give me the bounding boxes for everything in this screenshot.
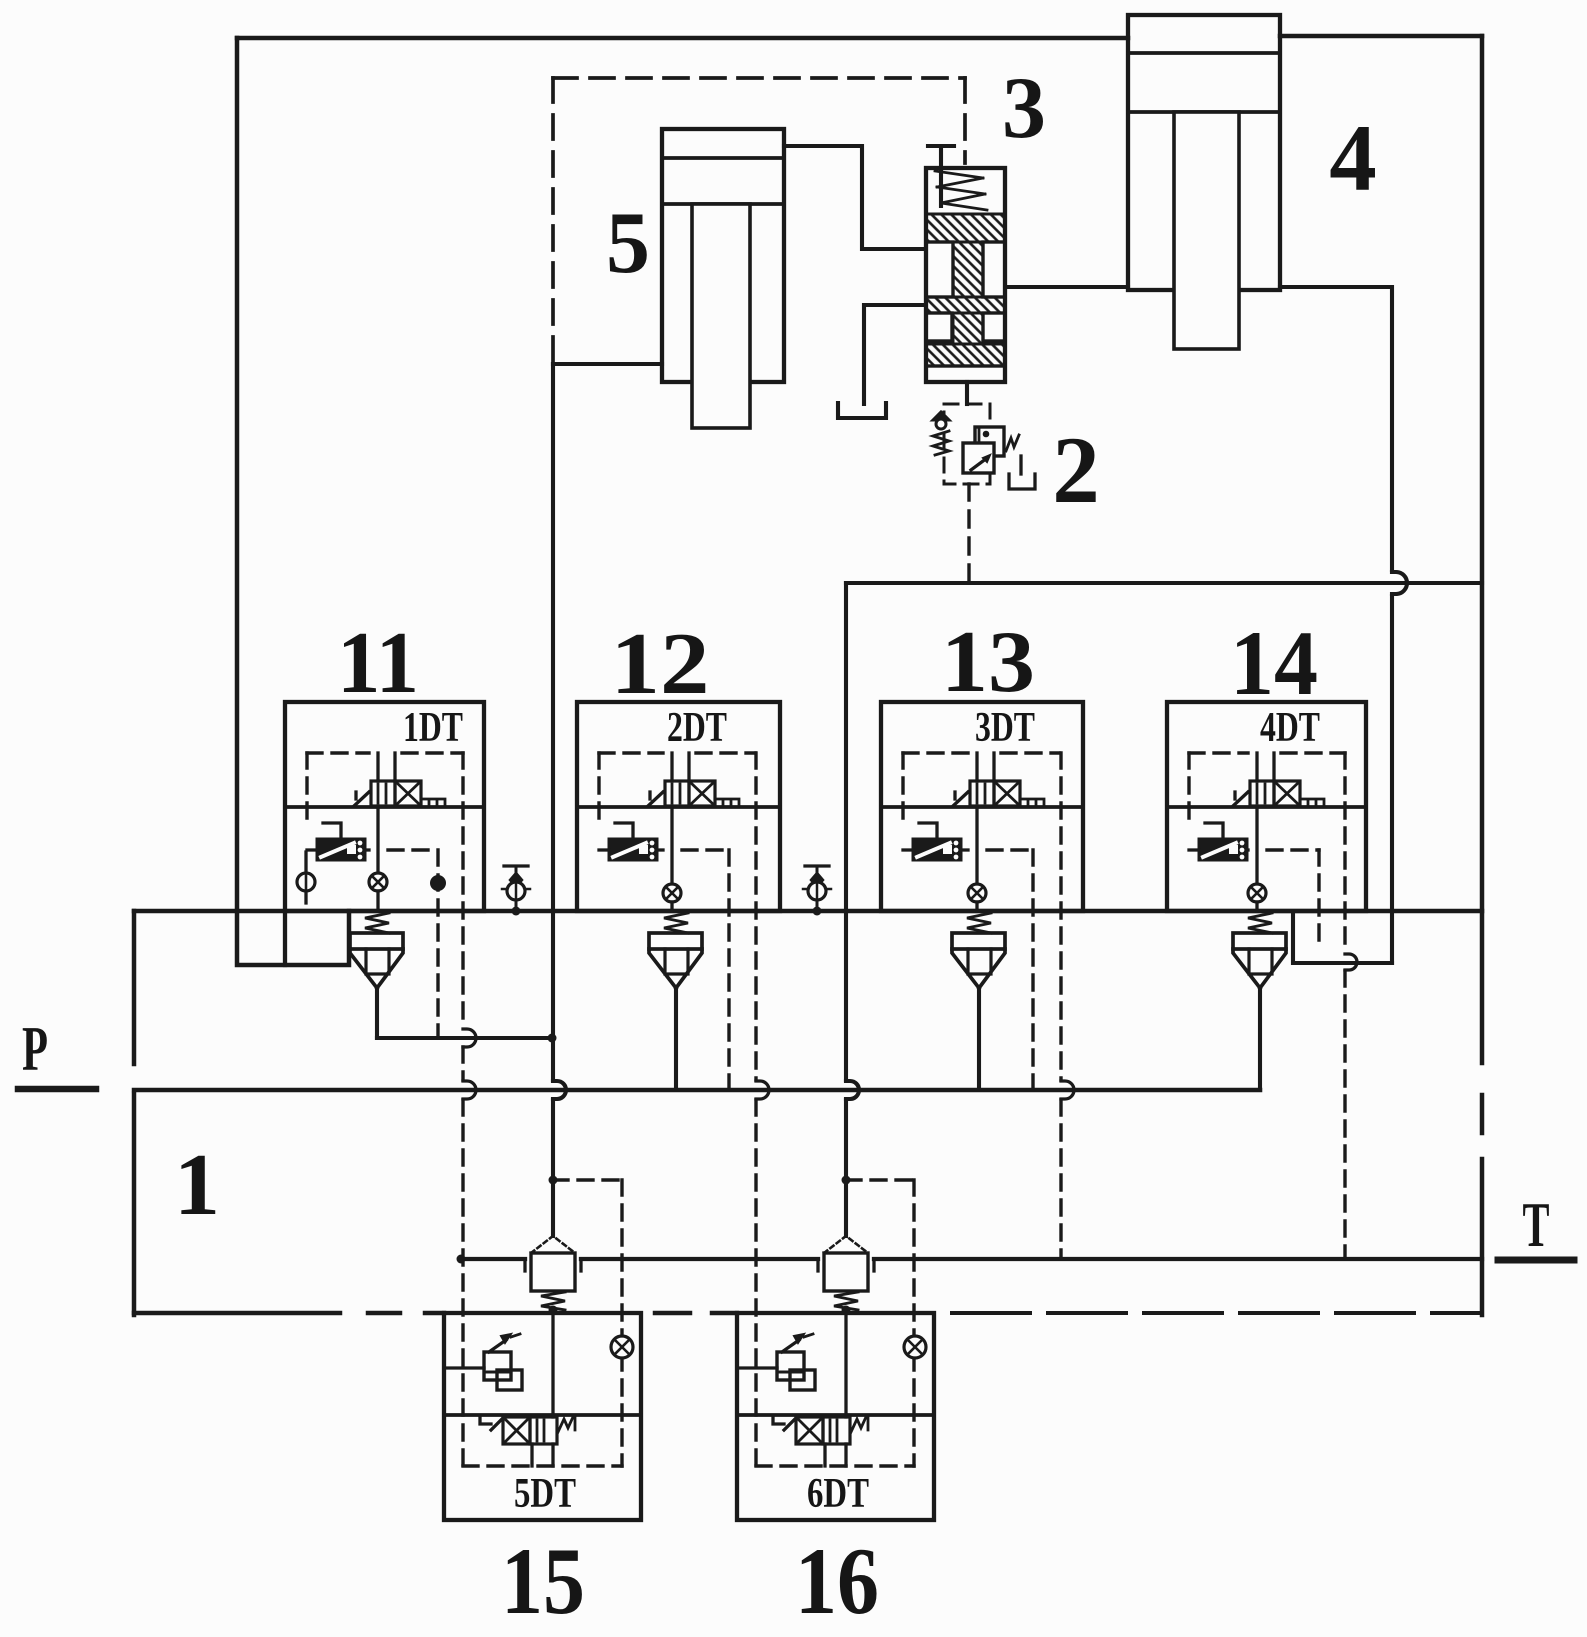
wire vertical 553 to check valve 15: [551, 1100, 555, 1236]
valve 16 spring: [851, 1417, 868, 1432]
module 11 node black dot: [430, 875, 446, 891]
valve 12 return spring: [715, 799, 739, 806]
wire top border from block to cylinder 4: [237, 36, 1128, 41]
solenoid valve 12 position box 1: [665, 781, 689, 806]
check valve above module 15 poppet cone: [531, 1236, 575, 1253]
check valve under module 13 spring: [967, 913, 991, 933]
valve 12 pilot stems: [670, 753, 673, 781]
svg-text:16: 16: [795, 1528, 879, 1634]
module 15 dashed box top edge: [553, 1178, 622, 1181]
pilot relief valve 16 inlet wire: [739, 1366, 777, 1369]
check valve under module 14 seat box: [1233, 933, 1286, 949]
valve 3 bottom stem: [965, 382, 969, 404]
valve 3 left chamber lower: [926, 313, 952, 341]
hop of dashed 463 over check valve link: [463, 1029, 476, 1047]
module 14 pilot dashed box top edge: [1189, 751, 1248, 754]
check valve above module 16 spring: [834, 1292, 858, 1310]
valve module 14 outer box: [1167, 702, 1366, 911]
cylinder 5 piston: [662, 202, 784, 206]
cylinder 5 body: [662, 129, 784, 382]
solenoid valve 16 position box 1 crossed: [796, 1417, 823, 1444]
svg-text:3DT: 3DT: [975, 705, 1035, 751]
P bus line: [134, 1088, 1260, 1093]
relief valve 2 pilot poppet: [933, 412, 949, 420]
wire cylinder 4 to right border: [1280, 34, 1482, 39]
dashed pilot line module 12 box edge: [754, 753, 757, 1080]
relief valve 2 lower box: [963, 443, 994, 473]
junction dot at 516/911: [512, 907, 521, 916]
dashed enclosure left edge: [551, 78, 555, 364]
svg-text:4: 4: [1329, 105, 1377, 211]
pilot piston 12: [609, 839, 657, 860]
module 16 dashed box bottom edge: [756, 1464, 914, 1467]
check valve under module 11 spring: [365, 913, 389, 933]
solenoid valve 14 position box 2 with crossed ports: [1274, 781, 1300, 806]
wire check valve 11 outlet link: [377, 1036, 553, 1040]
hop of dashed 463 over P bus: [463, 1081, 476, 1099]
pilot piston 11: [317, 839, 365, 860]
junction dot check valve 15 to module: [549, 1306, 558, 1315]
pilot piston 14: [1199, 839, 1247, 860]
check valve under module 13 seat box: [952, 933, 1005, 949]
svg-text:11: 11: [337, 615, 419, 712]
throttle check symbol at x=516 poppet: [510, 873, 522, 887]
check valve under module 13 poppet: [952, 949, 1005, 988]
wire right border lower section to bottom corner: [1480, 1159, 1485, 1315]
check valve above module 16 seat tabs: [818, 1259, 874, 1271]
check valve above module 15 seat tabs: [525, 1259, 581, 1271]
relief valve 2 main box: [975, 427, 1004, 456]
module 14 centerline: [1167, 805, 1366, 809]
solenoid valve 11 position box 1: [371, 781, 395, 806]
svg-text:T: T: [1523, 1189, 1550, 1260]
T underline: [1498, 1257, 1574, 1264]
pilot relief valve 15 arrow: [489, 1340, 506, 1352]
wire vertical 846 lower part: [844, 1100, 848, 1236]
wire hop of vertical 553 over P bus: [553, 1081, 566, 1099]
relief valve 2 pilot spring: [933, 431, 949, 455]
wire check valve 11 outlet down: [375, 988, 379, 1038]
wire left vertical of block 1: [132, 911, 137, 1064]
valve 3 hatched band 2: [926, 297, 1005, 313]
valve 3 left chamber upper: [926, 242, 953, 297]
valve 14 return spring: [1300, 799, 1324, 806]
bus line upper (module bottoms): [134, 909, 1482, 914]
check valve above module 16 poppet cone: [824, 1236, 868, 1253]
module 15 dashed box bottom edge: [463, 1464, 622, 1467]
wire check valve 14 outlet down to P bus end: [1258, 988, 1262, 1090]
valve 13 return spring: [1020, 799, 1044, 806]
junction dot check valve 16 to module: [842, 1306, 851, 1315]
solenoid coil 11: [354, 792, 369, 806]
junction dot at 553/1038: [548, 1034, 557, 1043]
valve 15 spring: [558, 1417, 575, 1432]
throttle check symbol at x=817 poppet: [811, 873, 823, 887]
wire horizontal link line to right border: [846, 581, 1482, 585]
module 13 stem to bus: [975, 902, 978, 911]
module 11 pilot dashed box left edge: [305, 753, 308, 824]
dashed pilot line down to module 15 dashed box: [461, 1100, 464, 1466]
check valve under module 14 poppet: [1233, 949, 1286, 988]
dashed enclosure top edge: [553, 76, 965, 80]
pilot piston 11 connections: [307, 848, 317, 851]
valve module 16 outer box: [737, 1313, 934, 1520]
dashed pilot line module 14 inner: [1317, 850, 1320, 950]
wire vertical drop to return loop: [1390, 596, 1394, 963]
wire right border dashed section: [1480, 1095, 1485, 1133]
module 16 measuring point symbol: [904, 1336, 926, 1358]
valve 14 pilot stems: [1255, 753, 1258, 781]
wire check valve 13 outlet down to P bus: [977, 988, 981, 1090]
valve 15 lower stems: [530, 1444, 533, 1466]
junction dot at 846/1180: [842, 1176, 851, 1185]
module 12 stem to bus: [670, 902, 673, 911]
bottom boundary dash segments left: [368, 1311, 400, 1316]
valve module 11 outer box: [285, 702, 484, 911]
valve 11 pilot stems: [376, 753, 379, 781]
T return line: [461, 1257, 525, 1261]
check valve above module 15 spring: [541, 1292, 565, 1310]
wire cylinder 4 bottom to vertical drop: [1280, 287, 1392, 570]
check valve under module 14 spring: [1248, 913, 1272, 933]
module 12 dashed pilot line horizontal: [682, 848, 729, 851]
module 16 dashed box right edge: [912, 1180, 915, 1466]
valve 11 return spring: [421, 799, 445, 806]
module 14 orifice symbol on stem: [1248, 884, 1266, 902]
cylinder 5 cap line: [662, 156, 784, 160]
cylinder 4 piston: [1128, 110, 1280, 114]
wire dashed from valve 2 to link line: [967, 484, 970, 583]
module 14 dashed pilot line horizontal: [1267, 848, 1319, 851]
wire return loop under module 14: [1293, 911, 1392, 963]
svg-text:1: 1: [174, 1137, 220, 1234]
relief valve 2 dot: [983, 431, 990, 438]
module 13 pilot dashed box left edge: [901, 753, 904, 824]
svg-text:13: 13: [941, 614, 1035, 711]
tank symbol left: [838, 403, 886, 418]
wire right border of manifold block: [1480, 36, 1485, 1063]
svg-text:3: 3: [1002, 60, 1046, 157]
module 14 pilot dashed box left edge: [1187, 753, 1190, 824]
wire valve 3 lower left port to tank: [864, 305, 926, 404]
valve 3 hatched band 3: [926, 344, 1005, 366]
pilot relief valve 16 body: [777, 1352, 804, 1380]
check valve under module 11 seat box: [350, 933, 403, 949]
module 11 pilot dashed box top edge: [307, 751, 369, 754]
valve 3 right chamber upper: [983, 242, 1005, 297]
pilot relief valve 16 arrow: [782, 1340, 799, 1352]
valve 3 bottom white band: [926, 366, 1005, 382]
hop of dashed 1061 over P bus: [1061, 1081, 1074, 1099]
throttle check symbol at x=516 bar: [504, 864, 528, 867]
junction dot at 817/911: [813, 907, 822, 916]
wire check valve 12 outlet down to P bus: [674, 988, 678, 1090]
svg-text:2: 2: [1052, 417, 1100, 523]
module 16 feed stem: [844, 1313, 847, 1417]
wire hop of vertical 846 over P bus: [846, 1081, 859, 1099]
wire hop at crossing of line to node under module 14: [1392, 572, 1407, 594]
bottom boundary dashed right part: [952, 1311, 1482, 1315]
solenoid valve 11 position box 2 with crossed ports: [395, 781, 421, 806]
solenoid valve 13 position box 1: [970, 781, 994, 806]
junction dot T line start: [457, 1255, 466, 1264]
relief valve 2 dashed box: [944, 404, 990, 484]
module 12 orifice symbol on stem: [663, 884, 681, 902]
solenoid coil 16: [773, 1417, 796, 1430]
svg-text:14: 14: [1230, 612, 1318, 714]
module 16 dashed box top edge: [846, 1178, 914, 1181]
wire left border of manifold block 1: [237, 38, 349, 965]
valve 3 spring top compartment: [935, 171, 987, 210]
throttle check symbol at x=817 stem: [816, 866, 819, 911]
module 13 orifice symbol on stem: [968, 884, 986, 902]
solenoid coil 12: [648, 792, 663, 806]
svg-text:12: 12: [611, 616, 710, 713]
check valve under module 12 poppet: [649, 949, 702, 988]
relief valve 2 arrow: [971, 458, 987, 470]
solenoid valve 12 position box 2 with crossed ports: [689, 781, 715, 806]
tank symbol right of valve 2: [1009, 474, 1035, 489]
P underline: [18, 1086, 96, 1093]
wire vertical from cylinder 5 line down to P bus hop: [551, 364, 555, 1080]
valve 3 hatched band 1: [926, 214, 1005, 242]
cylinder 5 rod: [692, 204, 750, 428]
dashed pilot line module 13 inner: [1031, 850, 1034, 1090]
module 15 centerline: [444, 1413, 641, 1417]
module 11 centerline: [285, 805, 484, 809]
valve 3 body outline: [926, 168, 1005, 382]
cylinder 4 cap line: [1128, 51, 1280, 55]
check valve above module 16 body: [824, 1253, 868, 1291]
pilot piston 14 connections: [1189, 848, 1199, 851]
valve module 13 outer box: [881, 702, 1083, 911]
cylinder 4 rod: [1174, 112, 1239, 349]
pilot piston 12 connections: [599, 848, 609, 851]
jog of dashed 1345 over return loop: [1345, 954, 1357, 970]
valve 3 manual lever T bar: [928, 146, 954, 206]
pilot piston 13 connections: [903, 848, 913, 851]
module 11 extra orifice left: [304, 852, 307, 903]
solenoid coil 13: [953, 792, 968, 806]
wire valve 3 right port to cylinder 4 bottom: [1005, 285, 1128, 289]
check valve under module 12 seat box: [649, 933, 702, 949]
pilot relief valve 15 inlet wire: [446, 1366, 484, 1369]
junction dot at 553/1180: [549, 1176, 558, 1185]
throttle check symbol at x=516 stem: [515, 866, 518, 911]
svg-text:15: 15: [501, 1528, 585, 1634]
hop of dashed 756 over P bus: [756, 1081, 769, 1099]
module 12 pilot dashed box top edge: [599, 751, 663, 754]
svg-text:5DT: 5DT: [514, 1471, 576, 1517]
module 13 pilot dashed box top edge: [903, 751, 968, 754]
solenoid valve 15 position box 2: [530, 1417, 557, 1444]
module 12 pilot dashed box left edge: [597, 753, 600, 824]
valve module 12 outer box: [577, 702, 780, 911]
module 15 measuring point symbol: [611, 1336, 633, 1358]
module 14 stem to bus: [1255, 902, 1258, 911]
dashed pilot line module 12 inner: [727, 850, 730, 1090]
throttle check symbol at x=516 ball: [507, 882, 525, 900]
relief valve 2 outlet stem: [1019, 456, 1022, 474]
module 16 centerline: [737, 1413, 934, 1417]
valve 13 pilot stems: [975, 753, 978, 781]
throttle check symbol at x=516 side ticks: [502, 888, 530, 891]
valve module 15 outer box: [444, 1313, 641, 1520]
bottom boundary of block 1 solid left part: [134, 1311, 340, 1316]
dashed pilot line module 11 inner: [436, 850, 439, 1037]
solenoid valve 16 position box 2: [823, 1417, 850, 1444]
throttle check symbol at x=817 ball: [808, 882, 826, 900]
wire vertical link from link line down to check valve 16: [844, 583, 848, 1080]
dashed enclosure right edge to valve 3: [963, 78, 967, 163]
valve 3 hatched center column: [953, 242, 983, 344]
module 15 feed stem: [551, 1313, 554, 1417]
bottom boundary dashes between modules 15 and 16: [655, 1311, 690, 1316]
module 11 dashed pilot line horizontal: [388, 848, 437, 851]
module 11 stem to bus: [376, 891, 379, 911]
wire module 11 feed stub below bus: [283, 911, 287, 965]
dashed pilot line module 13 box edge: [1059, 753, 1062, 1080]
solenoid valve 13 position box 2 with crossed ports: [994, 781, 1020, 806]
throttle check symbol at x=817 bar: [805, 864, 829, 867]
valve 3 right chamber lower: [983, 313, 1005, 341]
svg-text:6DT: 6DT: [807, 1471, 869, 1517]
solenoid coil 15: [480, 1417, 503, 1430]
relief valve 2 main box inner line: [978, 429, 981, 454]
module 11 orifice symbol on stem: [369, 873, 387, 891]
wire cylinder 5 cap to valve 3 upper port: [784, 146, 926, 249]
solenoid coil 14: [1233, 792, 1248, 806]
check valve above module 15 body: [531, 1253, 575, 1291]
check valve under module 12 spring: [664, 913, 688, 933]
dashed pilot line module 14 box edge: [1343, 753, 1346, 953]
solenoid valve 15 position box 1 crossed: [503, 1417, 530, 1444]
module 15 dashed box right edge: [620, 1180, 623, 1466]
pilot relief valve 15 body: [484, 1352, 511, 1380]
valve 16 lower stems: [823, 1444, 826, 1466]
pilot relief valve 15 lower box: [497, 1370, 522, 1390]
module 13 dashed pilot line horizontal: [987, 848, 1033, 851]
module 12 centerline: [577, 805, 780, 809]
module 13 centerline: [881, 805, 1083, 809]
cylinder 4 body: [1128, 15, 1280, 290]
dashed pilot line module 11 box edge upper: [461, 753, 464, 1027]
check valve under module 11 poppet: [350, 949, 403, 988]
pilot piston 13: [913, 839, 961, 860]
svg-text:5: 5: [606, 195, 650, 292]
wire cylinder 5 rod side to vertical line: [553, 362, 662, 366]
pilot relief valve 16 lower box: [790, 1370, 815, 1390]
svg-text:P: P: [22, 1013, 48, 1084]
throttle check symbol at x=817 side ticks: [803, 888, 831, 891]
solenoid valve 14 position box 1: [1250, 781, 1274, 806]
relief valve 2 spring marks right: [1006, 435, 1019, 451]
